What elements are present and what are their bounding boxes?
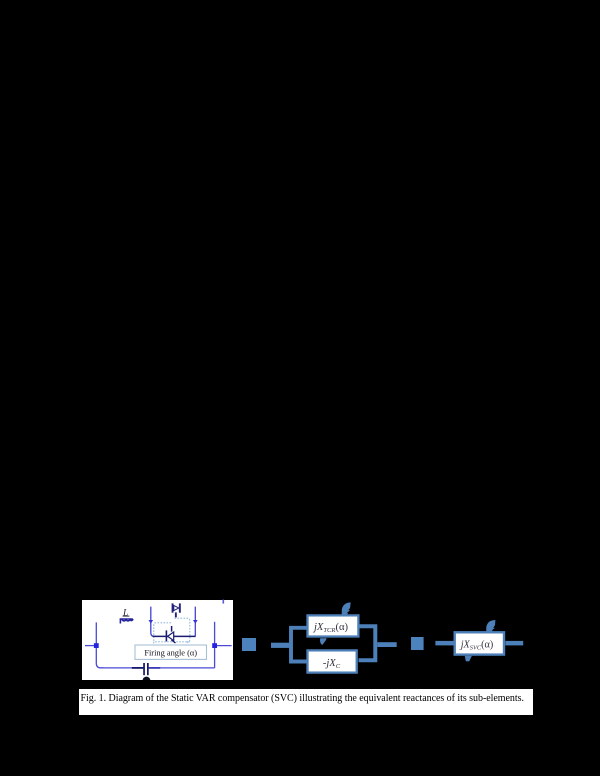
right bracket — [359, 626, 376, 660]
firing angle box — [135, 645, 207, 659]
equivalence block 2 — [411, 637, 424, 650]
right feeder arrowhead — [193, 620, 198, 624]
svg-text:Fig. 1. Diagram of the Static: Fig. 1. Diagram of the Static VAR compen… — [81, 693, 524, 704]
bottom wire (left segment) — [101, 667, 144, 669]
gate tail — [171, 640, 175, 643]
left bracket — [291, 628, 307, 662]
right bus wire — [214, 622, 216, 668]
equivalence block 1 — [242, 638, 256, 651]
ground blob below capacitor — [143, 677, 151, 680]
arrow tail below TCR box — [320, 638, 327, 645]
SVC input wire — [435, 641, 453, 646]
TCR box — [308, 615, 359, 636]
thyristor (in dashed box) — [153, 626, 196, 643]
right junction dot — [212, 643, 217, 648]
TCR-FC input wire — [271, 643, 291, 648]
inductor L label — [122, 607, 129, 618]
svg-text:Firing angle (α): Firing angle (α) — [144, 649, 197, 658]
FC box — [308, 650, 357, 672]
triangle — [168, 632, 174, 641]
TCR-FC output wire — [377, 642, 396, 647]
left junction dot — [94, 643, 99, 648]
thyristor pair (top symbol) — [172, 603, 181, 617]
SVC box — [455, 632, 504, 654]
top edge tick — [222, 600, 224, 604]
arrow leaf above TCR box — [342, 602, 351, 614]
bottom wire navy overlay left — [132, 667, 144, 669]
right terminal stub — [215, 645, 232, 647]
bottom wire navy overlay right — [149, 667, 161, 669]
left feeder arrowhead — [149, 620, 154, 624]
figure panel (SVC circuit) — [82, 600, 233, 680]
gate stem — [171, 626, 173, 632]
SVC output wire — [505, 641, 523, 646]
arrow tail below SVC box — [465, 656, 472, 662]
svg-text:L: L — [122, 607, 128, 618]
cathode bar — [165, 630, 167, 641]
caption strip — [79, 689, 533, 715]
capacitor C plates — [143, 663, 145, 675]
inductor L coil — [120, 619, 132, 624]
right feeder wire — [194, 607, 196, 637]
bottom wire (right segment) — [149, 667, 215, 669]
dashed control box — [154, 618, 190, 644]
left terminal stub — [85, 645, 96, 647]
arrow leaf above SVC box — [486, 620, 495, 632]
left bus wire — [96, 622, 103, 668]
left feeder wire — [151, 607, 156, 637]
anode line — [153, 635, 196, 637]
